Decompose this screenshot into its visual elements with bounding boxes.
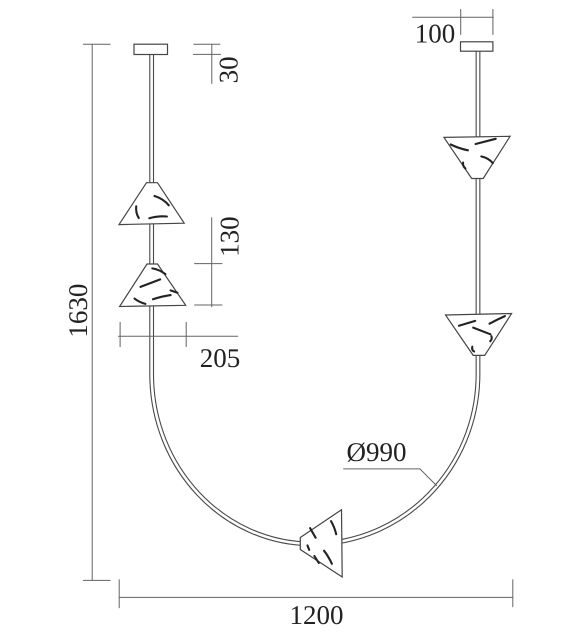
leader line for diameter [344, 469, 437, 486]
dimension 30 (top left) [194, 44, 221, 83]
svg-text:30: 30 [214, 56, 244, 83]
svg-text:205: 205 [200, 343, 241, 373]
shade 2 texture [135, 268, 178, 304]
dimension 1630 (left vertical) [83, 44, 110, 580]
shade 3 texture [451, 139, 496, 169]
cone shade 4 (right lower, inverted) [446, 314, 512, 356]
shade 1 texture [136, 196, 169, 218]
dimension 130 (left middle vertical) [195, 218, 222, 307]
shade 5 texture [308, 521, 337, 564]
tube (suspension rod and circular arc, double line) [150, 51, 480, 546]
ceiling canopy left [134, 44, 168, 54]
svg-text:Ø990: Ø990 [347, 437, 407, 467]
dimension 1200 (bottom horizontal) [119, 580, 513, 608]
dimension 100 (top right) [413, 9, 494, 34]
svg-text:1200: 1200 [290, 600, 344, 630]
svg-text:100: 100 [415, 19, 456, 49]
cone shade 1 (left upper) [119, 183, 184, 225]
svg-text:1630: 1630 [63, 284, 93, 338]
dimension 205 (below shade 2) [119, 322, 238, 346]
shade 4 texture [459, 316, 505, 351]
ceiling canopy right [461, 42, 493, 51]
cone shade 2 (left lower) [120, 264, 186, 307]
cone shade 3 (right upper, inverted) [444, 136, 510, 178]
svg-text:130: 130 [214, 216, 244, 257]
cone shade 5 (bottom, sideways) [300, 510, 342, 577]
